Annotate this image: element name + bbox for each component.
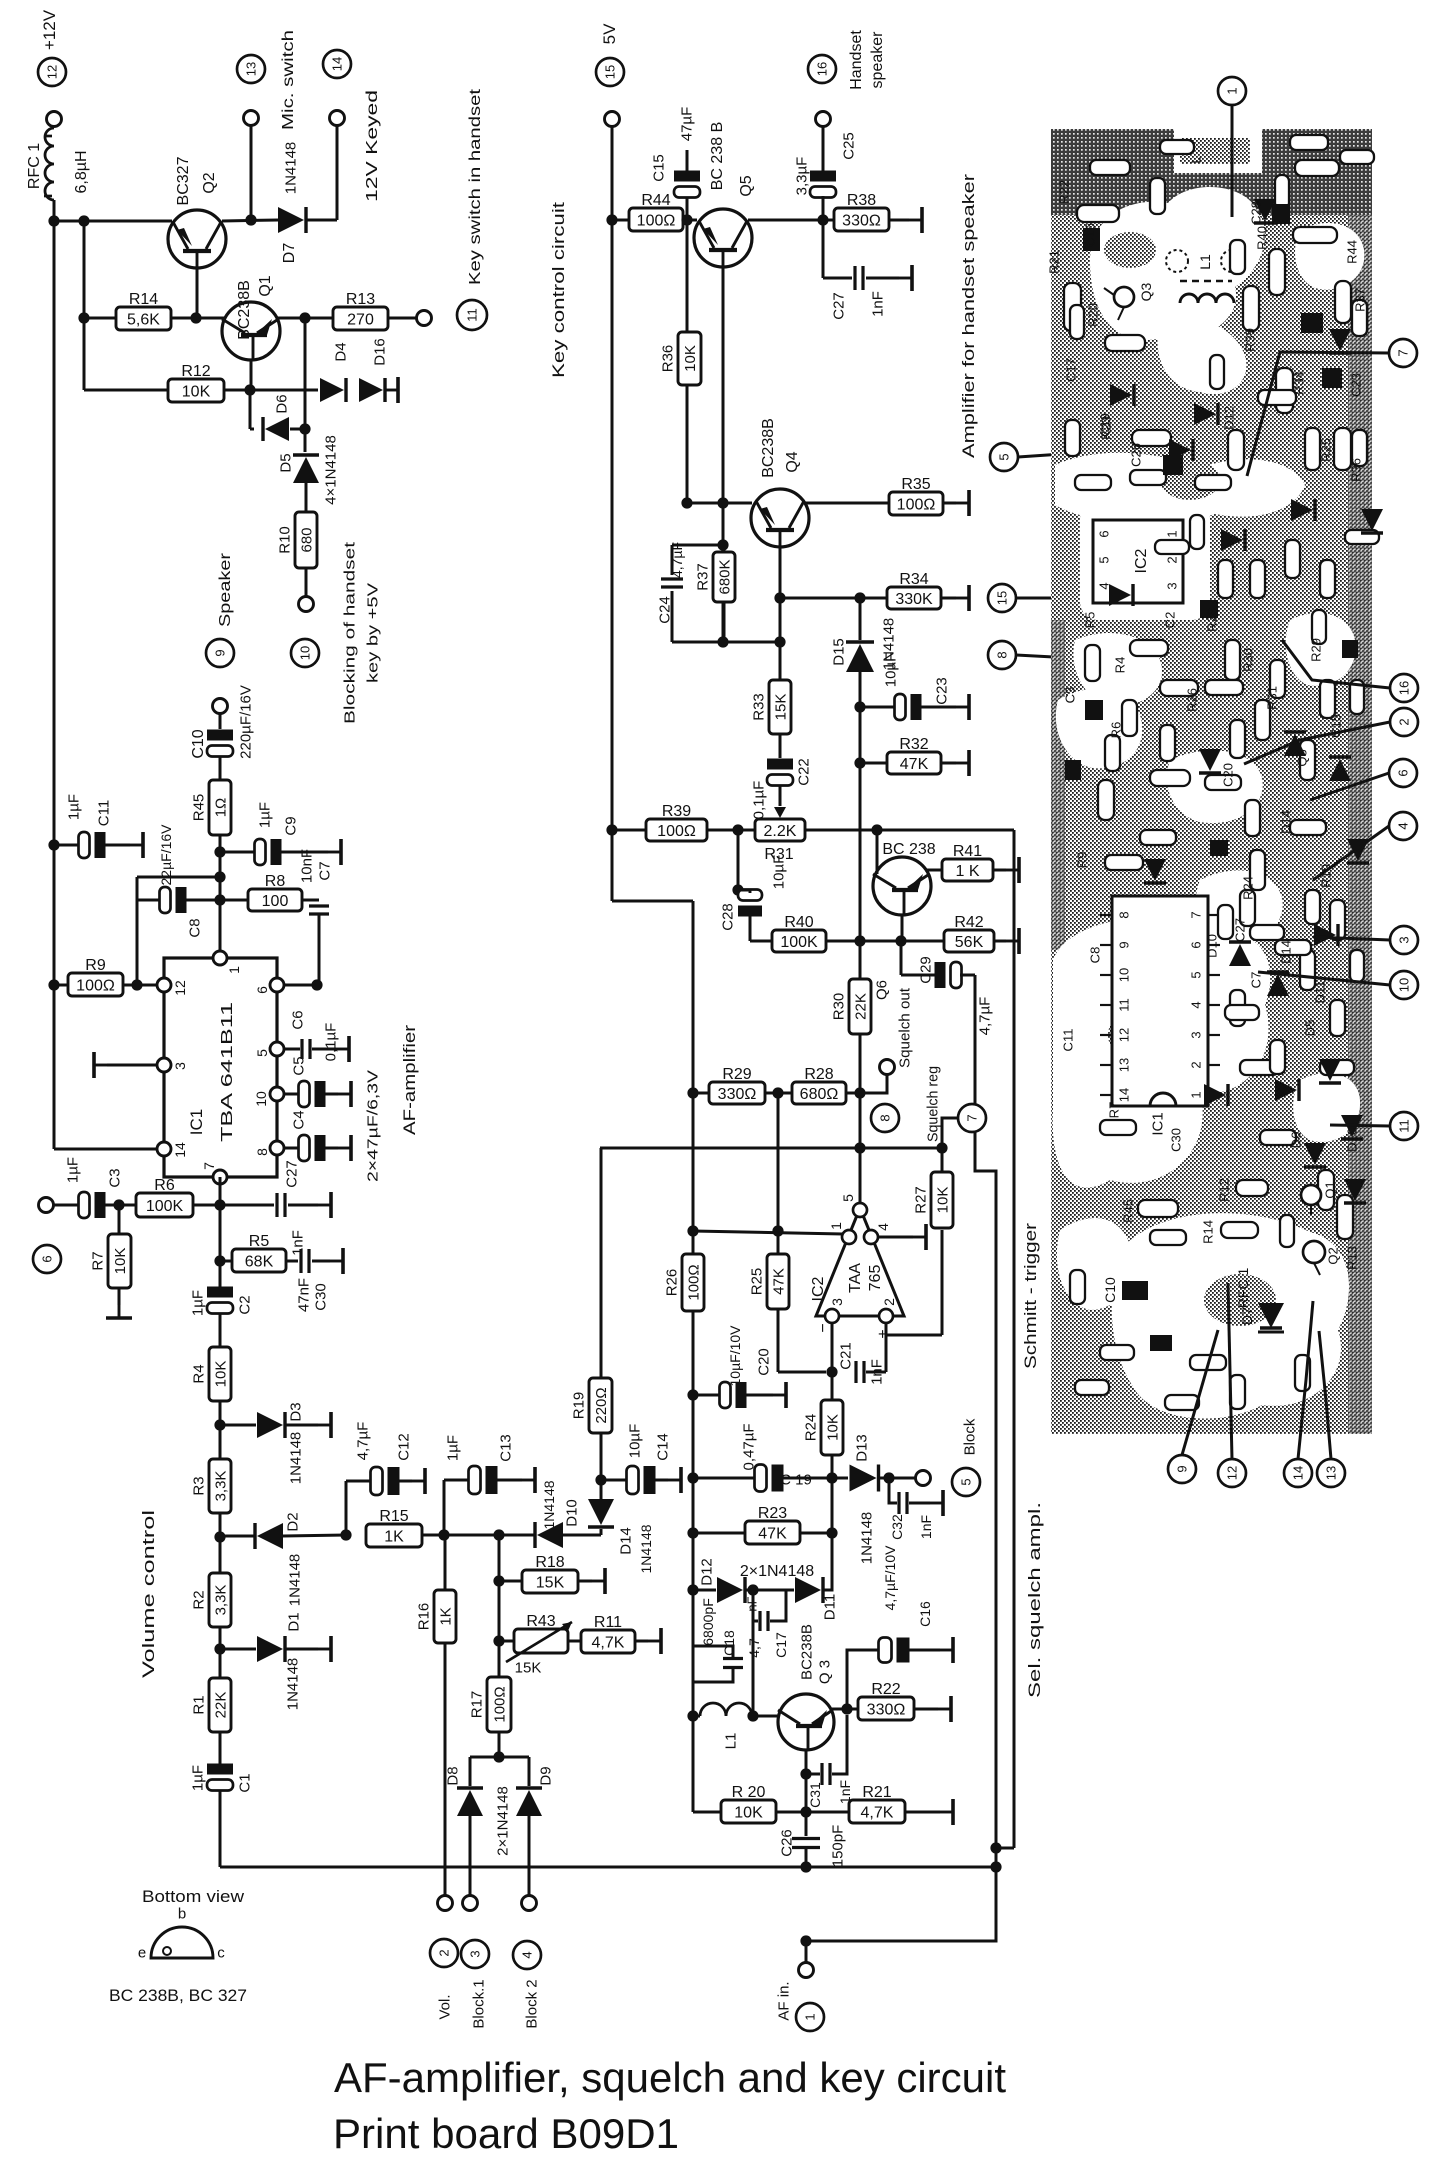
junction C23 (854, 701, 865, 712)
svg-text:11: 11 (1397, 1119, 1412, 1133)
svg-text:100: 100 (262, 893, 289, 910)
diode D12 (717, 1577, 745, 1603)
capacitor C4 (299, 1135, 326, 1161)
wire R36 bottom (686, 385, 689, 503)
pcb dither island 4 (1104, 232, 1156, 268)
svg-text:2: 2 (1165, 556, 1180, 563)
svg-text:R44: R44 (1345, 240, 1360, 264)
svg-text:D6: D6 (1289, 1132, 1304, 1149)
svg-text:1: 1 (803, 2013, 818, 2020)
diode D10 (535, 1522, 563, 1548)
svg-text:22µF/16V: 22µF/16V (158, 824, 174, 886)
diode D8 (457, 1788, 483, 1816)
junction R9/C8 riser (131, 979, 142, 990)
wire base row to Q1 (196, 317, 226, 320)
wire pin4 ground (878, 1236, 913, 1239)
pcb IC1 pin line 8 (1100, 914, 1112, 916)
pcb component body 19 (1130, 640, 1168, 656)
svg-text:100Ω: 100Ω (897, 497, 936, 514)
svg-text:220µF/16V: 220µF/16V (237, 685, 254, 759)
pcb diode 2 (1275, 1079, 1299, 1101)
svg-text:R25: R25 (1319, 438, 1334, 462)
wire to terminal 14 (336, 126, 339, 220)
wire Q6 collector (925, 869, 942, 872)
wire R4 to D3 node (219, 1401, 222, 1425)
diode D4 (320, 378, 346, 402)
pcb darker right edge (1348, 129, 1372, 1434)
ground R35 (956, 490, 969, 516)
svg-text:D7: D7 (281, 243, 298, 264)
svg-text:D12: D12 (698, 1558, 715, 1586)
svg-text:47µF: 47µF (678, 107, 695, 142)
pcb diode 10 (1169, 439, 1193, 461)
pcb IC1 pin line 4 right (1208, 1004, 1220, 1006)
wire R21 right (905, 1811, 940, 1814)
pcb IC1 pin line 12 (1100, 1034, 1112, 1036)
svg-text:C11: C11 (1061, 1029, 1076, 1052)
node 6 (33, 1245, 61, 1273)
ground C27a (318, 1192, 331, 1218)
resistor R23 (745, 1505, 800, 1544)
wire R27 bottom (941, 1230, 944, 1335)
junction C28 (732, 884, 743, 895)
pcb IC1 outline (1112, 896, 1208, 1106)
capacitor C6 (302, 1039, 310, 1059)
svg-text:Block 2: Block 2 (523, 1979, 540, 2028)
junction bottom rail right (990, 1861, 1001, 1872)
pcb darker left edge (1051, 620, 1065, 950)
wire R40 left (750, 940, 772, 943)
wire node7 stub (942, 1118, 958, 1148)
svg-text:R42: R42 (954, 914, 983, 931)
svg-text:Squelch out: Squelch out (896, 987, 913, 1068)
leader 2 (1244, 722, 1390, 764)
svg-text:BC238B: BC238B (760, 418, 777, 478)
junction D12 left (687, 1584, 698, 1595)
pcb component body 72 (1225, 1005, 1259, 1020)
svg-text:Block: Block (961, 1418, 978, 1455)
pcb component body 28 (1300, 950, 1315, 990)
svg-text:C7: C7 (1249, 972, 1264, 989)
potentiometer arrow R43 (506, 1622, 572, 1662)
junction pin6 (311, 979, 322, 990)
wire junction down to D6 row (249, 390, 252, 429)
junction Q4 base row b (717, 497, 728, 508)
terminal squelch out (880, 1060, 895, 1075)
svg-text:BC327: BC327 (175, 156, 192, 205)
junction R7 branch (113, 1199, 124, 1210)
junction pin7 (214, 1199, 225, 1210)
svg-text:IC1: IC1 (187, 1109, 206, 1135)
resistor R39 (646, 803, 707, 841)
diode D2 (255, 1523, 283, 1549)
svg-text:R14: R14 (129, 291, 158, 308)
junction x84 (78, 215, 89, 226)
wire D15 down (859, 672, 862, 1148)
pcb capacitor body 11 (1210, 840, 1228, 856)
terminal blocking (299, 597, 314, 612)
svg-text:R34: R34 (899, 571, 928, 588)
junction Q4 base row a (681, 497, 692, 508)
wire AF terminal stem (805, 1941, 808, 1963)
svg-text:1: 1 (1189, 1091, 1204, 1098)
svg-text:C3: C3 (106, 1168, 123, 1187)
junction C19 row left (687, 1472, 698, 1483)
wire C13 riser (443, 1480, 446, 1535)
pcb diode 21 (1144, 859, 1166, 883)
wire R41 right (993, 869, 1006, 872)
capacitor C27 (1nF) (277, 1193, 285, 1217)
svg-text:R39: R39 (662, 803, 691, 820)
wire D5 node up (304, 318, 307, 429)
svg-text:R23: R23 (758, 1505, 787, 1522)
svg-text:C17: C17 (1064, 358, 1079, 382)
svg-text:C23: C23 (1349, 373, 1364, 397)
junction pin5 (854, 1142, 865, 1153)
svg-text:R37: R37 (1353, 288, 1368, 312)
wire R1 to C1 (219, 1732, 222, 1764)
svg-text:3: 3 (1165, 582, 1180, 589)
svg-text:9: 9 (1117, 941, 1132, 948)
terminal Block (916, 1471, 931, 1486)
junction mic switch (245, 214, 256, 225)
svg-text:22K: 22K (213, 1692, 230, 1719)
wire Q5 collector row (748, 219, 834, 222)
svg-text:16: 16 (1397, 681, 1412, 695)
svg-text:11: 11 (1117, 998, 1132, 1012)
capacitor C32 (899, 1492, 907, 1514)
wire R43 left (499, 1640, 514, 1643)
pcb diode 18 (1314, 924, 1338, 946)
leader 10 (1258, 972, 1390, 985)
junction C15/R36 (681, 214, 692, 225)
wire Q6 base (876, 830, 879, 874)
svg-text:6: 6 (1097, 530, 1112, 537)
svg-text:C1: C1 (236, 1773, 253, 1792)
svg-text:R10: R10 (276, 526, 293, 554)
wire R36 top (686, 220, 689, 332)
junction R18 branch (493, 1529, 504, 1540)
svg-text:AF-amplifier: AF-amplifier (400, 1025, 419, 1135)
wire R39 right (707, 829, 755, 832)
svg-text:10K: 10K (682, 345, 699, 372)
svg-text:D5: D5 (1303, 1020, 1318, 1037)
ground C27 (899, 265, 912, 291)
svg-text:C 19: C 19 (780, 1471, 812, 1488)
svg-text:C31: C31 (807, 1782, 823, 1808)
junction Q6 base (871, 824, 882, 835)
junction R9 (48, 979, 59, 990)
svg-text:Q5: Q5 (1295, 749, 1310, 766)
resistor R38 (834, 192, 889, 231)
wire R16 top (444, 1535, 447, 1590)
bottom view index dot (163, 1947, 171, 1955)
wire pin14 to rail (54, 1148, 157, 1151)
svg-text:D10: D10 (563, 1499, 580, 1527)
svg-text:D14: D14 (617, 1527, 634, 1555)
svg-text:4,7µF: 4,7µF (354, 1422, 371, 1461)
wire R8 left (220, 899, 248, 902)
transistor Q5 (BC238B) (694, 209, 752, 267)
resistor R29 (709, 1066, 765, 1104)
svg-text:C29: C29 (917, 956, 934, 984)
svg-text:C26: C26 (778, 1829, 795, 1857)
svg-text:C2: C2 (1163, 612, 1178, 629)
wire R25 riser top (777, 1093, 780, 1231)
wire pin1 up (219, 907, 222, 951)
svg-text:10: 10 (1117, 968, 1132, 982)
resistor R24 (802, 1400, 843, 1455)
svg-text:6: 6 (1189, 941, 1204, 948)
node 11 (457, 300, 487, 330)
svg-text:Speaker: Speaker (217, 552, 234, 627)
wire R33 to C22 (779, 734, 782, 758)
svg-text:R26: R26 (663, 1269, 680, 1297)
svg-text:100Ω: 100Ω (657, 823, 696, 840)
svg-text:270: 270 (347, 312, 374, 329)
wire Q1 to R13 (278, 317, 333, 320)
wire C14 left (601, 1479, 628, 1482)
svg-text:R36: R36 (659, 345, 676, 373)
wire R7 bottom (118, 1288, 121, 1305)
svg-text:100Ω: 100Ω (637, 213, 676, 230)
wire R44 left (612, 219, 629, 222)
diode D14 (588, 1499, 614, 1527)
callout 7 (1389, 339, 1417, 367)
svg-text:3: 3 (1189, 1031, 1204, 1038)
wire R6 right (193, 1204, 220, 1207)
svg-text:13: 13 (1324, 1466, 1339, 1480)
node 13 (237, 55, 265, 83)
transistor Q1 (BC238B) (222, 302, 280, 360)
svg-text:C20: C20 (755, 1348, 772, 1376)
svg-text:56K: 56K (955, 934, 984, 951)
resistor R22 (858, 1681, 914, 1720)
junction D1 (214, 1643, 225, 1654)
terminal Block2 (522, 1896, 537, 1911)
ground C14 (668, 1467, 681, 1493)
pcb component body 79 (1075, 1380, 1109, 1395)
svg-text:13: 13 (244, 62, 259, 76)
wire R9 right (123, 984, 164, 987)
wire R27 riser (941, 1119, 944, 1172)
pcb component body 84 (1210, 355, 1224, 389)
svg-text:R13: R13 (346, 291, 375, 308)
wire D1 right (285, 1648, 318, 1651)
capacitor C2 (207, 1287, 233, 1314)
pcb component body 86 (1190, 515, 1204, 549)
svg-text:7: 7 (201, 1162, 217, 1170)
pcb component body 43 (1320, 680, 1335, 718)
node 14 (323, 50, 351, 78)
pcb component body 6 (1293, 227, 1337, 243)
wire R22 right (914, 1708, 938, 1711)
svg-text:R18: R18 (535, 1554, 564, 1571)
svg-text:R7: R7 (1107, 1102, 1122, 1119)
svg-text:D1: D1 (285, 1612, 302, 1631)
resistor R41 (942, 843, 993, 881)
svg-text:10µF: 10µF (770, 855, 787, 890)
svg-text:680: 680 (299, 527, 316, 552)
junction C28 branch (732, 824, 743, 835)
capacitor C19 (755, 1465, 784, 1492)
pcb component body 45 (1140, 830, 1176, 845)
pcb component body 83 (1070, 305, 1084, 339)
pcb diode 6 (1361, 509, 1383, 533)
pcb component body 9 (1305, 428, 1320, 470)
resistor R30 (830, 979, 871, 1034)
wire C23 row (860, 706, 896, 709)
resistor R20 (721, 1784, 776, 1823)
svg-text:1µF: 1µF (189, 1765, 206, 1791)
svg-text:8: 8 (1117, 911, 1132, 918)
resistor R7 (89, 1234, 131, 1288)
svg-text:RFC 1: RFC 1 (26, 143, 43, 189)
pcb diode 8 (1329, 757, 1351, 781)
svg-text:C4: C4 (290, 1110, 307, 1129)
resistor R1 (190, 1678, 231, 1732)
wire C7 down (318, 914, 321, 985)
terminal AF in (799, 1963, 814, 1978)
svg-text:12: 12 (172, 980, 188, 996)
wire to R3 (219, 1425, 222, 1459)
pcb capacitor body 3 (1122, 1281, 1148, 1300)
wire C20 left (693, 1394, 721, 1397)
wire pin2 stem (885, 1323, 888, 1372)
pcb component body 50 (1260, 1130, 1296, 1145)
pcb component body 30 (1240, 1060, 1278, 1075)
pcb IC1 pin line 2 right (1208, 1064, 1220, 1066)
svg-text:Amplifier for handset speaker: Amplifier for handset speaker (959, 174, 978, 458)
pcb component body 63 (1085, 645, 1100, 681)
wire R14 left (84, 317, 116, 320)
svg-text:4: 4 (520, 1951, 535, 1958)
svg-text:6: 6 (254, 986, 270, 994)
junction R26 top (687, 1225, 698, 1236)
junction D15 line x R40 row (854, 935, 865, 946)
wire to R2 (219, 1537, 222, 1573)
callout 16 (1390, 674, 1418, 702)
svg-text:D2: D2 (284, 1512, 301, 1531)
svg-text:R25: R25 (748, 1268, 765, 1296)
svg-text:4,7K: 4,7K (861, 1805, 894, 1822)
pcb IC1 pin line 14 (1100, 1094, 1112, 1096)
svg-text:C9: C9 (282, 816, 299, 835)
wire C27a row (220, 1204, 274, 1207)
svg-text:R41: R41 (953, 843, 982, 860)
svg-text:2: 2 (1189, 1061, 1204, 1068)
pcb diode 1 (1194, 403, 1218, 425)
pcb diode 19 (1344, 1179, 1366, 1203)
svg-text:4: 4 (875, 1223, 891, 1231)
svg-text:C23: C23 (933, 677, 950, 705)
svg-text:R5: R5 (1083, 612, 1098, 629)
svg-text:4: 4 (1396, 822, 1411, 829)
pcb component body 61 (1130, 470, 1166, 485)
wire C29 drop (900, 941, 903, 975)
svg-text:C30: C30 (1169, 1128, 1184, 1152)
pcb component body 41 (1230, 720, 1245, 758)
wire R3 to D2 node (219, 1513, 222, 1537)
wire R32 left (860, 762, 887, 765)
pcb component body 64 (1122, 700, 1137, 736)
wire R10 to terminal (305, 568, 308, 597)
svg-text:R43: R43 (526, 1613, 555, 1630)
pcb component body 38 (1285, 540, 1300, 578)
pcb component body 65 (1160, 725, 1175, 761)
svg-text:R28: R28 (804, 1066, 833, 1083)
leader 14 (1298, 1301, 1313, 1459)
resistor R3 (190, 1459, 231, 1513)
pcb component body 29 (1330, 900, 1345, 940)
pcb component body 74 (1320, 1060, 1354, 1075)
resistor R42 (944, 914, 994, 952)
wire to terminal 13 (250, 126, 253, 220)
wire C3 right (104, 1204, 136, 1207)
junction D12/D11 (747, 1584, 758, 1595)
pcb component body 3 (1132, 430, 1171, 446)
svg-text:IC2: IC2 (1133, 548, 1150, 573)
svg-text:15: 15 (995, 591, 1010, 605)
wire C4 right (324, 1147, 338, 1150)
ground R42 (1006, 928, 1019, 954)
pcb component body 77 (1230, 1375, 1245, 1409)
pcb component body 58 (1352, 430, 1367, 466)
resistor R19 (570, 1378, 612, 1433)
junction C31 (800, 1768, 811, 1779)
junction C8/R8 (214, 894, 225, 905)
svg-text:R28: R28 (1205, 608, 1220, 632)
svg-text:BC 238B, BC 327: BC 238B, BC 327 (109, 1986, 247, 2005)
wire C15 top (686, 150, 689, 172)
terminal Vol (438, 1896, 453, 1911)
node 15 (pcb) (988, 584, 1016, 612)
svg-text:Q2: Q2 (1326, 1247, 1341, 1264)
diode D11 (795, 1577, 823, 1603)
resistor R40 (772, 914, 826, 952)
node 15 (596, 58, 624, 86)
wire C13 right (496, 1479, 522, 1482)
wire row 1148 (600, 1147, 862, 1150)
resistor R2 (190, 1573, 231, 1627)
svg-text:R11: R11 (594, 1614, 622, 1631)
svg-text:D12: D12 (1222, 406, 1237, 430)
resistor R26 (663, 1254, 704, 1311)
pcb IC2 outline (1093, 520, 1183, 603)
svg-text:C14: C14 (654, 1433, 671, 1461)
wire R29 left (693, 1092, 709, 1095)
wire Q4 emitter (779, 547, 782, 642)
pcb white blob left-bottom large (1053, 918, 1271, 1188)
terminal speaker (213, 699, 228, 714)
ground R34 (956, 585, 969, 611)
ground C6 (336, 1036, 349, 1062)
svg-text:BC238B: BC238B (236, 280, 253, 340)
svg-text:R27: R27 (912, 1186, 929, 1214)
pcb D7 diode (1258, 1303, 1284, 1332)
svg-text:5: 5 (1189, 971, 1204, 978)
diode D16 (359, 378, 385, 402)
capacitor C23 (895, 694, 922, 720)
pcb component body 0 (1077, 205, 1119, 222)
svg-text:IC1: IC1 (1149, 1112, 1166, 1135)
wire R18 riser (498, 1535, 501, 1757)
pcb component body 47 (1275, 940, 1311, 955)
svg-text:C18: C18 (721, 1630, 737, 1656)
svg-text:C25: C25 (840, 132, 857, 160)
junction Q4 emitter bottom (774, 636, 785, 647)
wire R16 to terminal (444, 1643, 447, 1896)
